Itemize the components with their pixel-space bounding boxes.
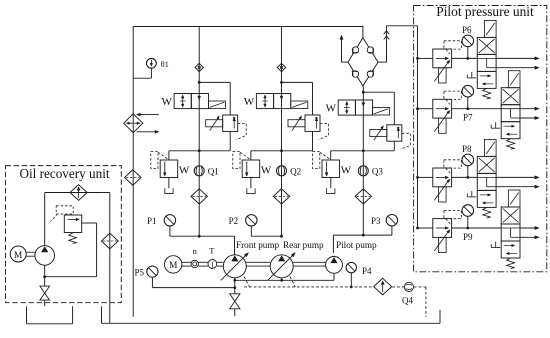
- svg-text:W: W: [179, 164, 190, 176]
- svg-text:Oil recovery unit: Oil recovery unit: [19, 166, 109, 181]
- svg-text:θ1: θ1: [161, 59, 169, 69]
- svg-text:Pilot pump: Pilot pump: [336, 240, 377, 250]
- svg-text:Q1: Q1: [208, 166, 219, 176]
- svg-text:Q3: Q3: [372, 166, 383, 176]
- svg-text:W: W: [261, 164, 272, 176]
- svg-text:P7: P7: [463, 113, 473, 123]
- svg-text:M: M: [14, 251, 22, 261]
- svg-text:Front pump: Front pump: [236, 240, 280, 250]
- svg-text:P2: P2: [229, 216, 239, 226]
- svg-text:P3: P3: [371, 216, 381, 226]
- svg-text:Rear pump: Rear pump: [283, 240, 324, 250]
- svg-text:P5: P5: [135, 268, 145, 278]
- svg-text:n: n: [193, 246, 198, 256]
- svg-text:M: M: [169, 261, 178, 271]
- svg-text:Q4: Q4: [402, 295, 413, 305]
- svg-text:W: W: [341, 164, 352, 176]
- svg-text:P9: P9: [463, 232, 473, 242]
- svg-text:W: W: [326, 102, 337, 114]
- svg-text:T: T: [209, 246, 215, 256]
- svg-text:P8: P8: [462, 144, 472, 154]
- svg-text:Q2: Q2: [290, 166, 301, 176]
- svg-text:Pilot pressure unit: Pilot pressure unit: [436, 4, 534, 19]
- svg-text:W: W: [244, 96, 255, 108]
- svg-text:P4: P4: [362, 266, 372, 276]
- svg-text:P6: P6: [462, 25, 472, 35]
- svg-text:P1: P1: [147, 216, 157, 226]
- svg-text:W: W: [162, 96, 173, 108]
